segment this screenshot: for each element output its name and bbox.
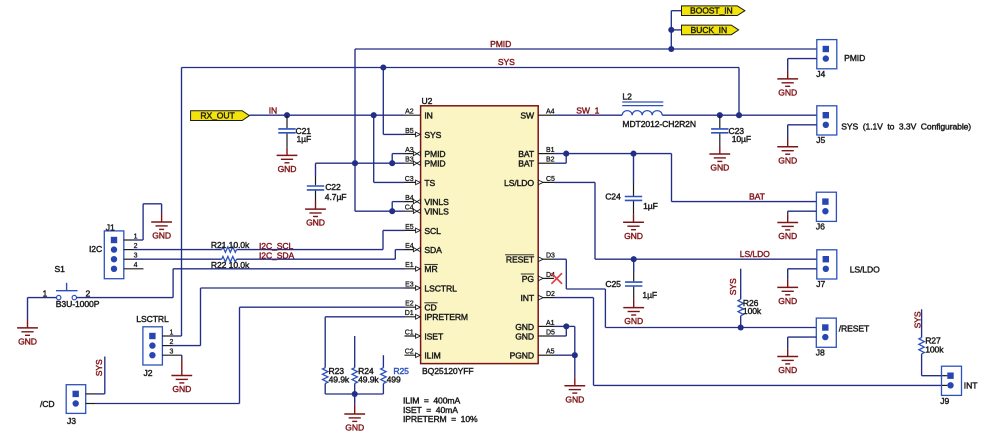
svg-text:E1: E1 (405, 262, 414, 269)
svg-text:I2C_SCL: I2C_SCL (259, 241, 293, 251)
svg-text:4.7µF: 4.7µF (325, 192, 347, 202)
svg-text:GND: GND (624, 316, 643, 326)
svg-text:BOOST_IN: BOOST_IN (690, 5, 733, 15)
svg-text:E2: E2 (405, 301, 414, 308)
svg-text:LS/LDO: LS/LDO (740, 249, 770, 259)
svg-text:MDT2012-CH2R2N: MDT2012-CH2R2N (622, 119, 696, 129)
svg-text:SYS: SYS (94, 359, 104, 376)
svg-text:IPRETERM: IPRETERM (424, 312, 468, 322)
svg-text:1µF: 1µF (642, 290, 657, 300)
svg-text:J1: J1 (106, 223, 115, 233)
svg-text:B2: B2 (546, 157, 555, 164)
svg-text:GND: GND (515, 322, 534, 332)
svg-text:3: 3 (170, 349, 174, 356)
svg-text:GND: GND (710, 163, 729, 173)
svg-text:PMID: PMID (424, 159, 445, 169)
svg-text:J4: J4 (816, 69, 825, 79)
svg-text:J5: J5 (816, 135, 825, 145)
svg-text:D2: D2 (546, 291, 555, 298)
svg-text:C25: C25 (605, 279, 621, 289)
svg-text:GND: GND (306, 218, 325, 228)
svg-text:C5: C5 (546, 176, 555, 183)
svg-text:/RESET: /RESET (839, 324, 870, 334)
svg-text:49.9k: 49.9k (329, 374, 350, 384)
svg-text:J2: J2 (144, 368, 153, 378)
svg-text:D1: D1 (405, 310, 414, 317)
svg-text:I2C_SDA: I2C_SDA (259, 251, 294, 261)
svg-text:B4: B4 (405, 195, 414, 202)
svg-text:1µF: 1µF (297, 134, 312, 144)
svg-text:L2: L2 (622, 91, 632, 101)
svg-text:GND: GND (778, 155, 797, 165)
svg-text:SYS: SYS (912, 311, 922, 328)
svg-text:PMID: PMID (490, 39, 511, 49)
svg-text:B3U-1000P: B3U-1000P (56, 299, 100, 309)
svg-text:R21 10.0k: R21 10.0k (211, 240, 250, 250)
svg-text:A1: A1 (546, 320, 555, 327)
svg-text:B5: B5 (405, 128, 414, 135)
svg-text:GND: GND (345, 423, 364, 433)
svg-text:IN: IN (424, 111, 432, 121)
svg-text:ILIM = 400mA: ILIM = 400mA (403, 395, 460, 405)
svg-text:E4: E4 (405, 243, 414, 250)
svg-text:BAT: BAT (518, 159, 535, 169)
svg-text:U2: U2 (422, 96, 433, 106)
svg-text:100k: 100k (743, 306, 762, 316)
svg-text:49.9k: 49.9k (358, 374, 379, 384)
svg-text:BQ25120YFF: BQ25120YFF (422, 366, 474, 376)
svg-text:INT: INT (964, 381, 978, 391)
svg-text:C2: C2 (405, 349, 414, 356)
svg-text:GND: GND (778, 365, 797, 375)
svg-text:SDA: SDA (424, 245, 442, 255)
svg-text:J8: J8 (816, 348, 825, 358)
svg-text:J7: J7 (816, 279, 825, 289)
svg-text:SCL: SCL (424, 226, 441, 236)
svg-text:LSCTRL: LSCTRL (424, 283, 457, 293)
svg-text:ISET: ISET (424, 331, 444, 341)
svg-text:SW: SW (520, 111, 535, 121)
svg-text:GND: GND (515, 331, 534, 341)
svg-text:A5: A5 (546, 349, 555, 356)
svg-text:BUCK_IN: BUCK_IN (691, 25, 728, 35)
svg-text:GND: GND (778, 231, 797, 241)
svg-text:/CD: /CD (40, 399, 55, 409)
svg-text:B3: B3 (405, 157, 414, 164)
svg-text:LS/LDO: LS/LDO (850, 265, 880, 275)
svg-text:C22: C22 (325, 182, 341, 192)
svg-text:VINLS: VINLS (424, 207, 449, 217)
svg-text:GND: GND (18, 337, 37, 347)
svg-text:PGND: PGND (510, 351, 534, 361)
svg-text:D3: D3 (546, 253, 555, 260)
svg-text:1µF: 1µF (643, 201, 658, 211)
svg-text:PG: PG (522, 274, 535, 284)
svg-text:C4: C4 (405, 205, 414, 212)
svg-text:C3: C3 (405, 176, 414, 183)
svg-text:GND: GND (624, 231, 643, 241)
svg-text:SYS: SYS (424, 130, 441, 140)
svg-text:A3: A3 (405, 147, 414, 154)
svg-text:E3: E3 (405, 281, 414, 288)
svg-text:PMID: PMID (844, 53, 865, 63)
svg-text:BAT: BAT (518, 149, 535, 159)
svg-text:499: 499 (387, 374, 401, 384)
svg-text:C24: C24 (605, 192, 621, 202)
svg-text:PMID: PMID (424, 149, 445, 159)
svg-text:GND: GND (565, 394, 584, 404)
svg-text:GND: GND (172, 384, 191, 394)
svg-text:SW_1: SW_1 (576, 105, 599, 115)
svg-text:S1: S1 (55, 264, 66, 274)
svg-text:4: 4 (134, 262, 138, 269)
svg-text:B1: B1 (546, 147, 555, 154)
svg-text:GND: GND (778, 296, 797, 306)
svg-text:CD: CD (424, 303, 436, 313)
svg-text:RESET: RESET (506, 255, 535, 265)
svg-text:J3: J3 (67, 416, 76, 426)
svg-text:SYS: SYS (728, 278, 738, 295)
svg-text:LS/LDO: LS/LDO (504, 178, 534, 188)
svg-text:INT: INT (520, 293, 534, 303)
svg-text:IPRETERM = 10%: IPRETERM = 10% (403, 414, 478, 424)
svg-text:A4: A4 (546, 109, 555, 116)
svg-text:GND: GND (152, 231, 171, 241)
svg-text:10µF: 10µF (732, 134, 751, 144)
svg-text:LSCTRL: LSCTRL (136, 314, 169, 324)
svg-text:IN: IN (269, 105, 277, 115)
svg-text:VINLS: VINLS (424, 197, 449, 207)
svg-text:J9: J9 (940, 396, 949, 406)
svg-text:RX_OUT: RX_OUT (200, 111, 235, 121)
svg-text:100k: 100k (925, 344, 944, 354)
svg-text:TS: TS (424, 178, 435, 188)
svg-text:A2: A2 (405, 109, 414, 116)
svg-text:SYS (1.1V to 3.3V Configur: SYS (1.1V to 3.3V Configurable) (841, 122, 971, 132)
svg-text:E5: E5 (405, 224, 414, 231)
svg-text:SYS: SYS (498, 57, 515, 67)
svg-text:ILIM: ILIM (424, 351, 440, 361)
svg-text:I2C: I2C (89, 244, 102, 254)
svg-text:J6: J6 (816, 222, 825, 232)
svg-text:BAT: BAT (749, 191, 766, 201)
svg-text:MR: MR (424, 264, 437, 274)
svg-text:GND: GND (778, 88, 797, 98)
svg-text:GND: GND (278, 164, 297, 174)
svg-text:D5: D5 (546, 329, 555, 336)
svg-text:C1: C1 (405, 329, 414, 336)
